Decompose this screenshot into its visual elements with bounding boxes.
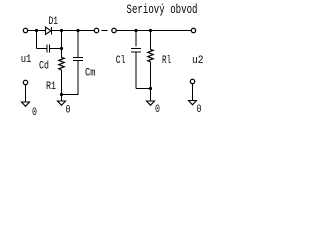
wire T4 to terminal T5 [116,30,191,32]
wire node C down to capacitor Cm [77,31,79,58]
resistor R1 [59,58,64,71]
svg-text:u1: u1 [21,54,32,66]
svg-text:u2: u2 [192,55,204,67]
resistor Rl [148,50,153,63]
node H junction dot [149,87,152,90]
ground G1 [22,102,30,106]
wire node A to diode anode [37,30,46,32]
svg-text:R1: R1 [46,81,56,93]
wire node A down (Cd branch) [36,31,38,49]
svg-text:Seriový obvod: Seriový obvod [127,2,198,17]
wire node D down to capacitor Cl [135,31,137,47]
wire Cd branch horizontal left [37,48,47,50]
svg-text:Cl: Cl [116,55,126,67]
svg-text:Cm: Cm [85,68,96,80]
ground G2 (below R1) [61,95,63,102]
capacitor Cd [47,45,50,53]
svg-text:Cd: Cd [39,61,49,73]
svg-text:Rl: Rl [162,55,171,67]
ground G3 (below Rl) [150,89,152,102]
terminal T3 [94,28,98,32]
node A junction dot [35,29,38,32]
wire T6 to ground [192,84,194,101]
node F junction dot (Cd meets R1 chain) [60,47,63,50]
wire node B down to resistor R1 [61,31,63,58]
wire Rl bottom to node H [150,62,152,89]
node C junction dot [76,29,79,32]
node E junction dot (Rl) [149,29,152,32]
wire Cm bottom down [77,61,79,96]
wire diode cathode to node B [52,30,62,32]
svg-text:0: 0 [155,104,160,116]
terminal T1 (U1 top) [23,28,27,32]
terminal T4 [112,28,116,32]
dash link [102,30,108,32]
node G junction dot [60,93,63,96]
capacitor Cm [73,58,83,61]
wire node B to node C [62,30,79,32]
wire node C to terminal T3 [78,30,94,32]
wire T2 to ground [25,85,27,102]
terminal T6 (U2 bottom) [190,79,194,83]
ground G4 [189,101,197,105]
wire Cd branch horizontal right [50,48,62,50]
svg-text:0: 0 [66,105,71,117]
terminal T5 (U2 top) [191,28,195,32]
wire Cl bottom to node H [136,88,151,90]
svg-text:0: 0 [32,107,37,119]
wire Cl bottom down [135,53,137,89]
capacitor Cl [131,49,141,53]
wire T1 to node A [28,30,37,32]
node D junction dot (Cl) [134,29,137,32]
node B junction dot [60,29,63,32]
wire node E down to resistor Rl [150,31,152,50]
svg-text:0: 0 [197,104,202,116]
terminal T2 (U1 bottom) [23,80,27,84]
diode D1 [46,27,52,35]
wire node G to Cm bottom [62,94,79,96]
svg-text:D1: D1 [49,16,59,28]
wire R1 bottom to node G [61,70,63,95]
